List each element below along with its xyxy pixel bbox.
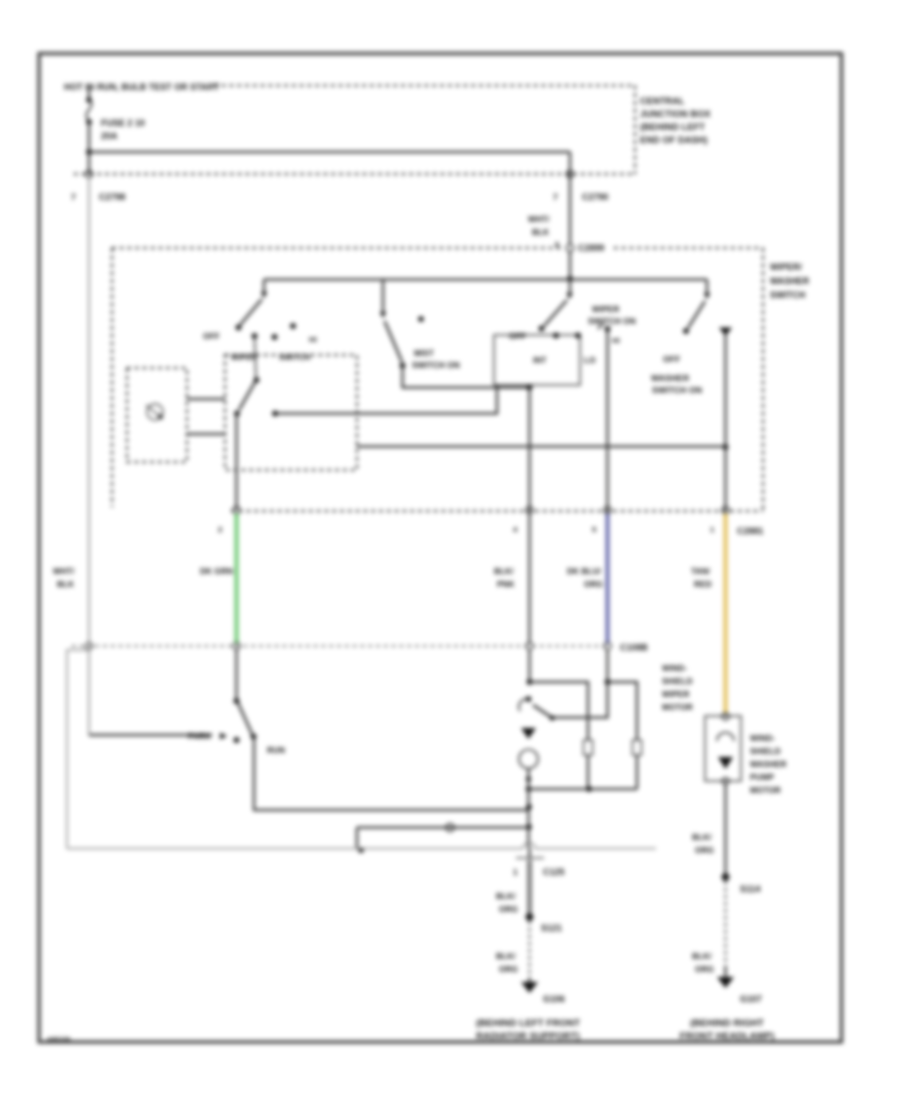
wire run arm to motor — [254, 737, 529, 810]
svg-text:C2899: C2899 — [578, 243, 604, 253]
location text right — [680, 1018, 775, 1042]
svg-text:SHIELD: SHIELD — [750, 747, 781, 756]
node washer/low junction — [723, 444, 729, 450]
contact INT — [252, 333, 258, 339]
wire fuse down to hot feed row — [88, 122, 90, 174]
wire lo brush branch — [530, 682, 589, 741]
wire TAN/RED (yellow) — [724, 514, 728, 714]
bump whtblk — [85, 642, 92, 649]
svg-text:HOT IN RUN, BULB TEST OR START: HOT IN RUN, BULB TEST OR START — [64, 82, 220, 92]
wire INT contact down into delay box — [255, 337, 257, 379]
CJB dashed bottom edge — [74, 173, 635, 175]
svg-text:ORG: ORG — [695, 965, 714, 974]
svg-text:ORG: ORG — [584, 580, 603, 589]
svg-text:(BEHIND LEFT FRONT: (BEHIND LEFT FRONT — [476, 1018, 580, 1029]
CJB dashed top edge — [214, 84, 635, 86]
svg-text:WIND-: WIND- — [662, 664, 687, 673]
svg-text:FUSE 2 10: FUSE 2 10 — [101, 118, 145, 128]
connector labels C2798 / C2790 — [71, 192, 608, 202]
park switch inside motor — [553, 682, 608, 718]
svg-text:7: 7 — [553, 192, 558, 202]
wire hot feed horizontal to right column — [89, 151, 570, 153]
mist contact dot — [418, 316, 424, 322]
wire mist pivot to int box column — [403, 366, 530, 388]
bump pin5 — [604, 506, 611, 513]
wire WHT/BLK right vertical to switch — [569, 174, 571, 244]
washer feed arrow — [706, 280, 708, 296]
bump grn — [233, 642, 240, 649]
mid switch arm — [544, 300, 567, 326]
svg-text:HI: HI — [309, 335, 317, 344]
park arm — [239, 382, 255, 410]
svg-text:G107: G107 — [740, 994, 762, 1004]
wire blu into motor — [606, 650, 608, 683]
svg-text:WASHER: WASHER — [750, 760, 787, 769]
bump blkpnk — [526, 642, 533, 649]
connector bump at C2790 — [566, 170, 573, 177]
contact LO — [272, 334, 278, 340]
contact on box top right — [575, 333, 581, 339]
svg-text:LO: LO — [584, 356, 596, 365]
wire low-speed rail — [357, 445, 726, 447]
mist switch arm — [385, 321, 403, 362]
svg-text:(BEHIND LEFT: (BEHIND LEFT — [640, 122, 705, 132]
switch box left edge — [111, 248, 113, 507]
svg-text:SHIELD: SHIELD — [662, 677, 693, 686]
INT relay box — [494, 335, 580, 385]
governor motor symbol — [147, 404, 163, 420]
svg-text:ORG: ORG — [695, 846, 714, 855]
svg-text:(BEHIND RIGHT: (BEHIND RIGHT — [690, 1018, 764, 1029]
mist switch — [380, 280, 530, 388]
wire from hot line to fuse — [88, 86, 90, 99]
svg-text:TAN/: TAN/ — [691, 567, 711, 576]
wire branch from whtblk — [67, 650, 89, 849]
connector bump at C2798 — [85, 170, 92, 177]
svg-text:BLK: BLK — [532, 228, 549, 237]
park sub box dashed — [225, 355, 357, 470]
svg-text:BLK/: BLK/ — [496, 952, 516, 961]
svg-text:WIPER: WIPER — [592, 305, 619, 314]
CJB dashed right edge — [634, 86, 636, 175]
svg-text:SWITCH: SWITCH — [770, 290, 805, 300]
switch box bottom edge C2881 — [231, 510, 763, 512]
svg-text:RUN: RUN — [267, 746, 285, 755]
bump pin2 — [233, 506, 240, 513]
motor armature — [519, 750, 538, 769]
svg-text:ORG: ORG — [499, 965, 518, 974]
svg-text:7: 7 — [71, 192, 76, 202]
middle pole of wiper switch — [272, 282, 636, 510]
svg-text:RADIATOR SUPPORT): RADIATOR SUPPORT) — [476, 1031, 580, 1042]
ground G107 — [724, 967, 726, 977]
switch box right edge — [762, 248, 764, 510]
pump arc — [717, 733, 734, 742]
svg-text:WIPER: WIPER — [231, 353, 257, 362]
bump blu — [604, 642, 611, 649]
park/run arm — [238, 703, 252, 734]
svg-text:HI: HI — [612, 336, 620, 345]
svg-text:S121: S121 — [541, 923, 562, 933]
svg-text:WASHER: WASHER — [770, 276, 810, 286]
CJB label — [640, 96, 711, 145]
svg-text:DK BLU/: DK BLU/ — [567, 567, 602, 576]
wire DK GRN — [235, 514, 238, 645]
wiper mode switch feed arrow — [263, 280, 265, 295]
svg-text:C2790: C2790 — [582, 192, 608, 202]
svg-text:C2798: C2798 — [99, 192, 125, 202]
svg-text:C2881: C2881 — [737, 526, 763, 536]
location text left — [476, 1018, 580, 1042]
pin rect hi — [633, 740, 642, 755]
switch box top edge — [112, 247, 763, 249]
svg-text:BLK/: BLK/ — [496, 892, 516, 901]
svg-text:ORG: ORG — [499, 905, 518, 914]
svg-text:G106: G106 — [543, 994, 565, 1004]
washer switch — [357, 280, 732, 511]
svg-text:BLK/: BLK/ — [692, 833, 712, 842]
svg-text:MIST: MIST — [414, 349, 434, 358]
splice S114 — [722, 873, 730, 881]
svg-text:OFF: OFF — [203, 332, 220, 341]
wiper delay governor area — [127, 353, 357, 470]
svg-text:RED: RED — [694, 580, 712, 589]
bump into pump — [722, 713, 729, 720]
svg-text:S114: S114 — [740, 884, 760, 894]
wiper mode switch arm — [240, 299, 262, 325]
motor brush triangle — [521, 728, 536, 739]
wire governor to park box lower — [187, 433, 225, 435]
svg-text:C108B: C108B — [620, 643, 648, 653]
svg-text:WHT/: WHT/ — [528, 215, 550, 224]
motor label — [662, 664, 693, 712]
svg-text:WASHER: WASHER — [651, 373, 690, 383]
ground G106 — [528, 977, 530, 982]
wire bottom run with hop — [67, 843, 656, 849]
svg-text:JUNCTION BOX: JUNCTION BOX — [640, 109, 711, 119]
svg-text:1: 1 — [513, 868, 518, 877]
svg-text:BLK: BLK — [57, 580, 74, 589]
svg-text:PUMP: PUMP — [750, 773, 774, 782]
park contact — [234, 737, 240, 743]
svg-text:1: 1 — [710, 525, 715, 534]
wire feed bus horizontal — [264, 278, 707, 280]
bump pin4 — [526, 506, 533, 513]
svg-text:2: 2 — [218, 525, 222, 534]
bump out of pump — [722, 778, 729, 785]
bump pin1 — [722, 506, 729, 513]
splice S121 — [526, 913, 534, 921]
wire BLK/PNK — [528, 514, 530, 645]
pin rect lo — [584, 740, 593, 755]
pump label — [750, 734, 787, 795]
wire low return — [357, 826, 529, 828]
svg-text:SWITCH ON: SWITCH ON — [588, 317, 636, 326]
svg-text:5: 5 — [592, 525, 597, 534]
svg-text:OFF: OFF — [509, 332, 526, 341]
washer contact terminal — [719, 328, 732, 337]
contact on box top left — [553, 333, 559, 339]
feed arrow mid — [569, 282, 571, 295]
fuse FUSE 2 10 20A — [86, 97, 92, 103]
svg-text:PARK: PARK — [188, 732, 211, 741]
governor box dashed — [127, 368, 187, 462]
svg-text:FRONT HEADLAMP): FRONT HEADLAMP) — [680, 1031, 775, 1042]
mist feed arrow — [382, 280, 384, 314]
svg-text:WIPER: WIPER — [662, 690, 689, 699]
svg-text:OFF: OFF — [663, 354, 680, 364]
wire WHT/BLK left long vertical — [88, 177, 90, 643]
park arm contact — [254, 377, 260, 383]
node fuse output junction — [86, 149, 92, 155]
wire governor to park box upper — [187, 398, 225, 400]
svg-text:SWITCH ON: SWITCH ON — [412, 361, 460, 370]
svg-text:WIPER/: WIPER/ — [770, 262, 802, 272]
node main feed junction — [567, 276, 573, 282]
contact HI — [290, 323, 296, 329]
svg-text:DK GRN: DK GRN — [200, 567, 233, 576]
dashed ground wire — [529, 921, 531, 977]
wire lo tap from box bottom — [277, 385, 497, 414]
dashed ground wire right — [725, 881, 727, 967]
svg-text:MOTOR: MOTOR — [750, 786, 781, 795]
node int box output — [527, 385, 533, 391]
svg-text:C125: C125 — [543, 867, 564, 877]
wire DK BLU/ORG — [606, 514, 609, 645]
wire blkpnk into motor — [528, 650, 530, 683]
connector C125 tick — [516, 857, 544, 859]
svg-text:A95330: A95330 — [47, 1037, 71, 1044]
svg-text:SWITCH: SWITCH — [279, 353, 311, 362]
pump box — [705, 716, 741, 781]
svg-text:PNK: PNK — [497, 580, 515, 589]
svg-text:4: 4 — [513, 525, 518, 534]
svg-text:BLK/: BLK/ — [692, 952, 712, 961]
wire washer contact down — [724, 333, 726, 510]
wire int box output down — [528, 388, 530, 511]
wire right column down to CJB edge — [569, 152, 571, 174]
svg-text:20A: 20A — [101, 131, 118, 141]
svg-text:CENTRAL: CENTRAL — [640, 96, 685, 106]
wire park arm down to connector — [235, 414, 237, 510]
dashed line C108 — [72, 645, 612, 647]
wire grn below connector — [235, 650, 237, 701]
svg-text:END OF DASH): END OF DASH) — [640, 135, 708, 145]
svg-text:WHT/: WHT/ — [53, 567, 75, 576]
svg-text:BLK/: BLK/ — [494, 567, 514, 576]
wire pump ground — [724, 785, 726, 878]
svg-text:INT: INT — [533, 356, 547, 365]
svg-text:SWITCH ON: SWITCH ON — [652, 385, 702, 395]
washer switch arm — [688, 301, 705, 328]
pump triangle — [718, 757, 733, 769]
connector bump C2899 — [566, 244, 573, 251]
wire hi brush branch — [608, 682, 638, 741]
motor bottom bus — [529, 769, 638, 789]
wire motor ground down — [527, 789, 529, 848]
wire HI down — [606, 329, 608, 510]
svg-text:MOTOR: MOTOR — [662, 703, 693, 712]
wire whtblk below connector — [88, 650, 90, 736]
svg-text:WIND-: WIND- — [750, 734, 775, 743]
